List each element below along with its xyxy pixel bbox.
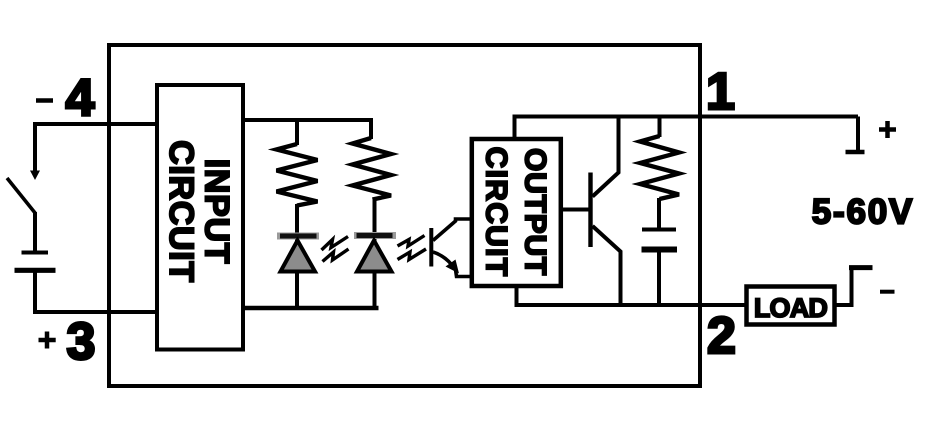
phototransistor Q1 emitter arrow: [446, 260, 460, 274]
svg-text:1: 1: [706, 63, 735, 121]
wire: resistor R3 top stub: [658, 117, 662, 138]
resistor R3: [640, 136, 679, 199]
LED D1 cathode bar: [277, 233, 319, 240]
LED D2 triangle: [357, 241, 392, 272]
minus sign at supply: [880, 290, 895, 294]
INPUT CIRCUIT label: [162, 140, 236, 283]
- supply terminal bar: [849, 265, 873, 270]
+ supply terminal bar: [846, 150, 865, 155]
wire: output block top stub: [513, 117, 517, 142]
svg-text:2: 2: [707, 307, 736, 365]
svg-text:LOAD: LOAD: [754, 293, 828, 323]
wire: left drop to switch: [33, 122, 37, 172]
wire: + supply drop: [856, 117, 860, 151]
capacitor C1 top plate: [642, 228, 676, 232]
wire: terminal 3 to input block: [33, 310, 157, 314]
SSR outer body box: [109, 45, 700, 386]
phototransistor Q1 emitter: [433, 252, 471, 277]
LED D1 triangle: [281, 241, 316, 272]
transistor Q2 emitter: [593, 226, 621, 305]
light rays D1 upper: [322, 237, 349, 251]
capacitor C1 bottom plate: [642, 247, 678, 253]
battery B1 top plate: [22, 251, 49, 255]
svg-text:CIRCUIT: CIRCUIT: [162, 140, 200, 283]
wire: bottom bus to load: [515, 303, 747, 307]
plus sign at terminal 3: [39, 332, 56, 349]
light rays D1 lower: [323, 249, 349, 262]
transistor Q2 base bar: [588, 173, 592, 248]
svg-text:5-60V: 5-60V: [812, 193, 914, 232]
OUTPUT CIRCUIT label: [480, 147, 552, 278]
resistor R2: [353, 138, 392, 200]
wire: input block top bus: [243, 120, 371, 139]
wire: C1 to bottom bus: [657, 251, 661, 305]
wire: input block bottom bus: [243, 306, 379, 311]
switch S1 blade: [7, 178, 36, 214]
svg-text:4: 4: [66, 70, 95, 128]
wire: load to - terminal: [835, 268, 852, 306]
wire: battery to terminal 3 wire: [33, 270, 37, 312]
phototransistor Q1 base bar: [429, 228, 433, 267]
light rays D2 upper: [398, 236, 425, 247]
switch S1 contact arrowhead: [30, 171, 40, 181]
transistor Q2 collector: [593, 117, 619, 197]
svg-text:CIRCUIT: CIRCUIT: [480, 147, 513, 278]
wire: terminal 4 to input block: [33, 122, 157, 126]
wire: switch to battery: [33, 212, 37, 252]
phototransistor Q1 collector: [433, 219, 471, 241]
wire: top bus to terminal 1 and +: [513, 115, 859, 119]
light rays D2 lower: [398, 249, 427, 260]
resistor R1: [277, 144, 318, 206]
wire: R2 to LED D2 to bottom bus: [373, 198, 377, 310]
svg-text:OUTPUT: OUTPUT: [519, 148, 552, 276]
battery B1 bottom plate: [15, 268, 56, 273]
wire: R3 to capacitor C1: [657, 198, 661, 230]
minus sign at terminal 4: [36, 98, 53, 103]
LOAD box: [747, 287, 835, 325]
wire: resistor R1 top stub: [295, 120, 299, 145]
plus sign at supply: [879, 121, 896, 138]
svg-text:3: 3: [67, 313, 96, 371]
LED D2 cathode bar: [354, 232, 396, 239]
wire: output block bottom stub: [515, 284, 519, 305]
transistor Q2 base wire: [560, 208, 591, 212]
OUTPUT CIRCUIT block: [472, 139, 561, 286]
svg-text:INPUT: INPUT: [198, 159, 236, 265]
INPUT CIRCUIT block: [157, 85, 243, 350]
wire: R1 to LED D1 to bottom bus: [295, 204, 299, 310]
